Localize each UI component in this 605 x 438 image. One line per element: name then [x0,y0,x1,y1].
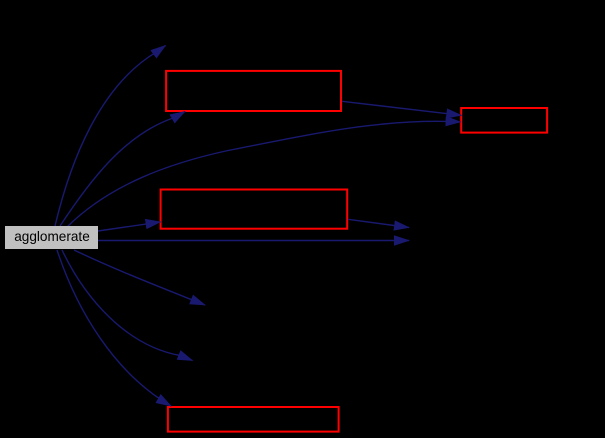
svg-text:agglomerate: agglomerate [14,229,90,244]
